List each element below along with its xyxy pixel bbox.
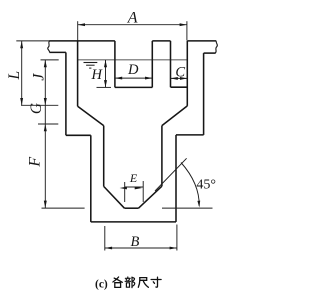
arrow B left bbox=[105, 247, 112, 250]
arrow 45 arc end bbox=[197, 201, 200, 208]
angle 45 reference line bbox=[162, 207, 213, 209]
dim D line bbox=[115, 77, 152, 79]
arrow E right bbox=[135, 187, 142, 190]
top surface left span bbox=[49, 40, 115, 42]
dim B right extension bbox=[176, 225, 178, 251]
dim E line bbox=[125, 186, 144, 188]
svg-text:D: D bbox=[127, 62, 139, 78]
dim B line bbox=[105, 247, 177, 249]
svg-text:G: G bbox=[28, 103, 45, 114]
arrow D left bbox=[115, 77, 122, 80]
svg-text:45°: 45° bbox=[196, 177, 216, 192]
dim J G F line bbox=[44, 60, 46, 208]
arrow D right bbox=[145, 77, 152, 80]
dim G bottom extension bbox=[38, 123, 58, 125]
svg-text:C: C bbox=[175, 65, 185, 81]
slot C bottom bbox=[171, 86, 188, 88]
inner V right slant bbox=[139, 186, 162, 208]
dim F bottom extension bbox=[42, 207, 85, 209]
arrow L bottom bbox=[20, 98, 23, 105]
tooth top between D and C bbox=[152, 40, 170, 42]
svg-text:A: A bbox=[127, 9, 138, 26]
dim B left extension bbox=[104, 226, 106, 251]
inner V left slant bbox=[104, 186, 125, 208]
caption char ge bbox=[113, 277, 122, 287]
dim J top extension bbox=[41, 59, 59, 61]
arrow C right bbox=[180, 77, 187, 80]
inner right lower wall bbox=[161, 126, 163, 187]
outer profile right flange break bbox=[215, 41, 217, 53]
arrow A left bbox=[78, 23, 85, 26]
liquid level symbol bbox=[84, 63, 98, 69]
arrow B right bbox=[170, 247, 177, 250]
dim L top extension bbox=[16, 40, 50, 42]
inner left wall bbox=[77, 41, 79, 106]
svg-text:J: J bbox=[31, 73, 48, 81]
arrow J bottom bbox=[44, 98, 47, 105]
slot D right wall bbox=[151, 41, 153, 88]
level line bbox=[78, 59, 188, 61]
svg-text:B: B bbox=[130, 234, 139, 250]
dim E left tick bbox=[124, 182, 126, 202]
dim A extension left bbox=[77, 21, 79, 40]
slot D left wall bbox=[114, 41, 116, 88]
outer right step bbox=[176, 134, 204, 136]
dim H line bbox=[105, 60, 107, 88]
inner right wall / slot C right wall bbox=[186, 41, 188, 106]
arrow H top bbox=[104, 60, 107, 67]
inner left lower wall bbox=[103, 126, 105, 187]
caption char cun bbox=[151, 277, 161, 287]
svg-text:(c): (c) bbox=[95, 279, 108, 291]
arrow E left bbox=[120, 187, 127, 190]
dim L line bbox=[21, 41, 23, 105]
dim H bottom tick bbox=[97, 86, 112, 88]
caption char chi bbox=[138, 278, 148, 288]
arrow J top bbox=[44, 60, 47, 67]
dim E right tick bbox=[142, 181, 144, 202]
dim A extension right bbox=[186, 21, 188, 40]
outer left step bbox=[66, 134, 91, 136]
outer profile right flange bottom bbox=[204, 52, 216, 54]
svg-text:F: F bbox=[27, 157, 44, 168]
outer profile left flange bottom bbox=[49, 51, 66, 53]
arrow A right bbox=[180, 23, 187, 26]
top surface right span bbox=[187, 40, 216, 42]
dim A line bbox=[78, 24, 187, 26]
svg-text:E: E bbox=[129, 171, 138, 185]
angle 45 arc bbox=[181, 163, 199, 206]
inner right upper slant bbox=[162, 106, 187, 126]
outer lower-left wall bbox=[90, 135, 92, 222]
arrow L top bbox=[20, 41, 23, 48]
inner left upper slant bbox=[78, 106, 104, 125]
outer left wall bbox=[65, 52, 67, 135]
slot D bottom bbox=[115, 86, 152, 88]
slot C left wall bbox=[170, 41, 172, 87]
arrow C left bbox=[171, 77, 178, 80]
svg-text:L: L bbox=[6, 71, 23, 81]
svg-text:H: H bbox=[91, 67, 104, 83]
outer bottom bbox=[91, 221, 176, 223]
angle 45 slant extension bbox=[155, 158, 187, 191]
arrow F top bbox=[44, 124, 47, 131]
extension line y105 shared L J G bbox=[21, 104, 58, 106]
caption char bu bbox=[125, 277, 135, 288]
outer lower-right wall bbox=[175, 135, 177, 222]
dim C line bbox=[171, 77, 188, 79]
outer profile left flange break bbox=[48, 41, 50, 53]
arrow H bottom bbox=[104, 80, 107, 87]
inner V flat bottom bbox=[124, 207, 138, 209]
outer right wall bbox=[203, 53, 205, 135]
arrow F bottom bbox=[44, 201, 47, 208]
